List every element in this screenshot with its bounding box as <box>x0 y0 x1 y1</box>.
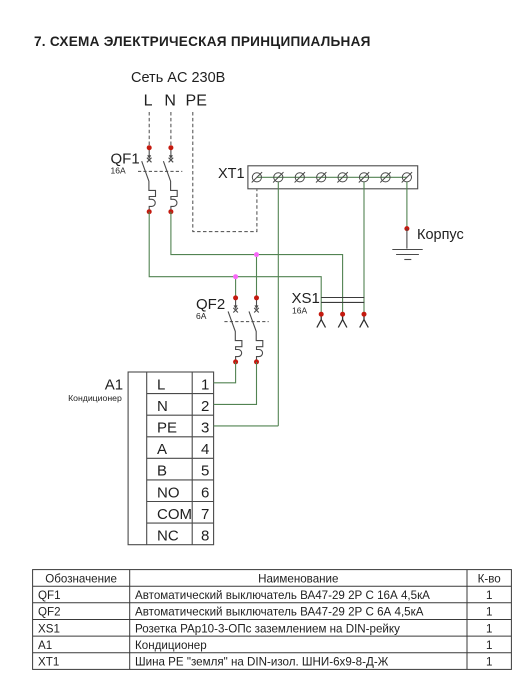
wire branch N to QF2 right pole <box>256 255 258 298</box>
svg-text:6: 6 <box>201 484 209 501</box>
svg-text:1: 1 <box>486 622 492 635</box>
socket XS1 bars <box>321 297 364 299</box>
svg-text:1: 1 <box>486 656 492 669</box>
svg-text:XS1: XS1 <box>38 622 60 635</box>
XT1 PE bus wire <box>257 176 407 178</box>
svg-text:Розетка РАр10-3-ОПс заземление: Розетка РАр10-3-ОПс заземлением на DIN-р… <box>135 622 400 635</box>
XS1 contact dot N <box>340 312 345 317</box>
svg-text:2: 2 <box>201 398 209 415</box>
svg-text:XT1: XT1 <box>218 166 245 182</box>
svg-text:Шина PE "земля" на DIN-изол. Ш: Шина PE "земля" на DIN-изол. ШНИ-6х9-8-Д… <box>135 656 389 669</box>
svg-text:1: 1 <box>486 606 492 619</box>
parts table <box>33 570 512 670</box>
svg-text:N: N <box>164 93 176 110</box>
QF2 bottom terminal dot N <box>254 359 259 364</box>
QF2 mechanical link dashed <box>224 321 268 323</box>
wire branch L to QF2 left pole <box>235 277 237 298</box>
wire A1 pin2 to QF2-N <box>214 362 257 405</box>
svg-text:A1: A1 <box>105 377 123 394</box>
QF1 top terminal dot L <box>147 145 152 150</box>
wire XT1 pin6 down to XS1 right contact <box>363 182 365 314</box>
svg-text:Корпус: Корпус <box>417 227 464 243</box>
svg-text:4: 4 <box>201 441 209 458</box>
svg-text:Автоматический выключатель ВА4: Автоматический выключатель ВА47-29 2Р С … <box>135 589 430 602</box>
svg-text:N: N <box>157 398 168 415</box>
chassis terminal dot <box>404 226 409 231</box>
svg-text:Обозначение: Обозначение <box>45 572 117 585</box>
svg-text:Кондиционер: Кондиционер <box>135 639 207 652</box>
wire PE dashed feed to XT1 pin1 <box>193 112 257 232</box>
svg-text:L: L <box>157 376 165 393</box>
svg-text:1: 1 <box>201 376 209 393</box>
wire L dashed feed <box>148 112 150 147</box>
wire A1 pin3 to XT1 pin2 <box>214 425 279 427</box>
XS1 contact dot L <box>319 312 324 317</box>
svg-text:1: 1 <box>486 589 492 602</box>
XS1 contact PE fork <box>360 314 369 327</box>
XS1 contact dot PE <box>362 312 367 317</box>
breaker QF1 pole L <box>142 148 156 212</box>
svg-text:NO: NO <box>157 484 180 501</box>
svg-text:PE: PE <box>157 420 177 437</box>
junction node on L bus <box>233 274 238 279</box>
QF1 mechanical link dashed <box>138 170 182 172</box>
svg-text:XT1: XT1 <box>38 656 59 669</box>
breaker QF2 pole L <box>228 298 242 362</box>
svg-text:6А: 6А <box>196 311 207 321</box>
wire XT1 pin2 down to A1 PE row <box>277 182 279 426</box>
wire A1 pin1 to QF2-L <box>214 362 236 383</box>
breaker QF2 pole N <box>249 298 263 362</box>
junction node on N bus <box>254 252 259 257</box>
svg-text:A1: A1 <box>38 639 52 652</box>
svg-text:8: 8 <box>201 528 209 545</box>
svg-text:Кондиционер: Кондиционер <box>68 393 122 403</box>
svg-text:Наименование: Наименование <box>258 572 338 585</box>
svg-text:B: B <box>157 463 167 480</box>
breaker QF1 pole N <box>163 148 177 212</box>
A1 pin labels <box>157 376 209 544</box>
QF1 top terminal dot N <box>168 145 173 150</box>
wire N dashed feed <box>170 112 172 147</box>
svg-text:1: 1 <box>486 639 492 652</box>
svg-text:NC: NC <box>157 528 179 545</box>
svg-text:Сеть AC 230В: Сеть AC 230В <box>131 70 225 86</box>
svg-text:К-во: К-во <box>478 572 501 585</box>
QF2 bottom terminal dot L <box>233 359 238 364</box>
QF1 bottom terminal dot L <box>147 209 152 214</box>
svg-text:QF2: QF2 <box>38 606 61 619</box>
svg-text:PE: PE <box>186 93 207 110</box>
ground symbol <box>392 229 422 260</box>
svg-text:3: 3 <box>201 420 209 437</box>
svg-text:7: 7 <box>201 506 209 523</box>
svg-text:Автоматический выключатель ВА4: Автоматический выключатель ВА47-29 2Р С … <box>135 606 424 619</box>
QF1 bottom terminal dot N <box>168 209 173 214</box>
QF2 top terminal dot L <box>233 295 238 300</box>
svg-text:L: L <box>144 93 153 110</box>
wire XT1 pin8 to chassis <box>406 182 408 229</box>
svg-text:7. СХЕМА ЭЛЕКТРИЧЕСКАЯ ПРИНЦИП: 7. СХЕМА ЭЛЕКТРИЧЕСКАЯ ПРИНЦИПИАЛЬНАЯ <box>34 34 371 49</box>
svg-text:COM: COM <box>157 506 192 523</box>
terminal block XT1 body <box>248 166 418 189</box>
svg-text:QF1: QF1 <box>38 589 61 602</box>
svg-text:A: A <box>157 441 167 458</box>
XS1 contact N fork <box>338 314 347 327</box>
svg-text:16А: 16А <box>111 166 126 176</box>
device A1 body <box>128 372 214 545</box>
svg-text:16А: 16А <box>292 305 307 315</box>
wire N bus: QF1-N down right to XS1 middle <box>171 212 343 315</box>
XT1 terminals 1-8 <box>252 172 412 182</box>
QF2 top terminal dot N <box>254 295 259 300</box>
svg-text:5: 5 <box>201 463 209 480</box>
XS1 contact L fork <box>317 314 326 327</box>
wire L bus: QF1-L down right to XS1 left <box>149 212 321 315</box>
